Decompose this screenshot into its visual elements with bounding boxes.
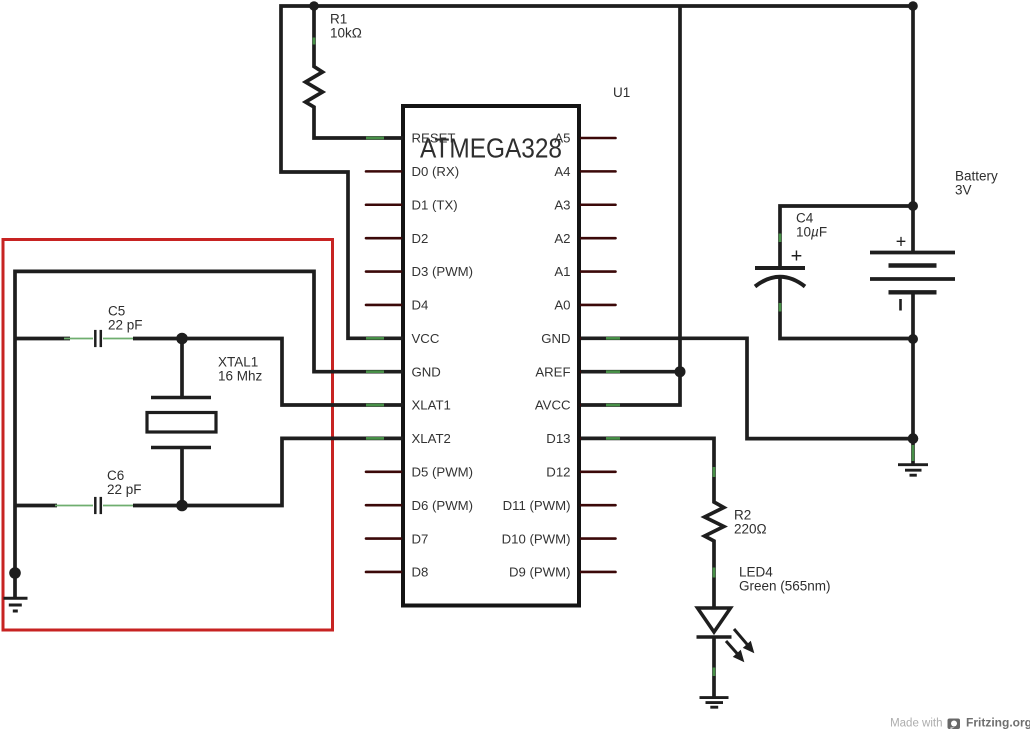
svg-text:XLAT2: XLAT2 [412,431,451,446]
svg-text:D4: D4 [412,298,429,313]
svg-text:AVCC: AVCC [535,398,571,413]
svg-text:C5: C5 [108,304,125,319]
svg-text:A5: A5 [554,131,570,146]
svg-text:10µF: 10µF [796,225,827,240]
svg-text:D13: D13 [546,431,570,446]
svg-text:R2: R2 [734,508,751,523]
svg-text:D6 (PWM): D6 (PWM) [412,498,474,513]
svg-text:+: + [896,232,907,252]
svg-text:D8: D8 [412,565,429,580]
svg-text:R1: R1 [330,12,347,27]
svg-text:3V: 3V [955,183,972,198]
svg-text:C6: C6 [107,468,124,483]
svg-text:LED4: LED4 [739,565,773,580]
svg-text:16 Mhz: 16 Mhz [218,369,263,384]
svg-text:XLAT1: XLAT1 [412,398,451,413]
svg-text:D1 (TX): D1 (TX) [412,197,458,212]
svg-text:D10 (PWM): D10 (PWM) [502,531,571,546]
svg-text:GND: GND [541,331,570,346]
svg-text:D12: D12 [546,465,570,480]
svg-text:10kΩ: 10kΩ [330,26,362,41]
svg-text:22 pF: 22 pF [107,482,142,497]
svg-text:XTAL1: XTAL1 [218,355,258,370]
svg-text:AREF: AREF [535,364,570,379]
svg-text:+: + [791,246,803,268]
svg-text:C4: C4 [796,211,814,226]
svg-text:U1: U1 [613,85,630,100]
svg-text:A3: A3 [554,197,570,212]
svg-text:A4: A4 [554,164,570,179]
svg-text:Battery: Battery [955,169,998,184]
svg-text:D0 (RX): D0 (RX) [412,164,460,179]
svg-text:Green (565nm): Green (565nm) [739,579,831,594]
svg-text:D3 (PWM): D3 (PWM) [412,264,474,279]
svg-text:D5 (PWM): D5 (PWM) [412,465,474,480]
svg-text:D11 (PWM): D11 (PWM) [503,498,571,513]
svg-text:D2: D2 [412,231,429,246]
svg-text:D9 (PWM): D9 (PWM) [509,565,571,580]
svg-text:A0: A0 [554,298,570,313]
svg-text:Made with: Made with [890,718,942,730]
svg-text:A2: A2 [554,231,570,246]
svg-text:VCC: VCC [412,331,440,346]
svg-text:A1: A1 [554,264,570,279]
svg-text:RESET: RESET [412,131,456,146]
svg-text:D7: D7 [412,531,429,546]
svg-text:220Ω: 220Ω [734,522,767,537]
svg-text:22 pF: 22 pF [108,318,143,333]
svg-text:Fritzing.org: Fritzing.org [966,716,1030,730]
svg-text:GND: GND [412,364,441,379]
